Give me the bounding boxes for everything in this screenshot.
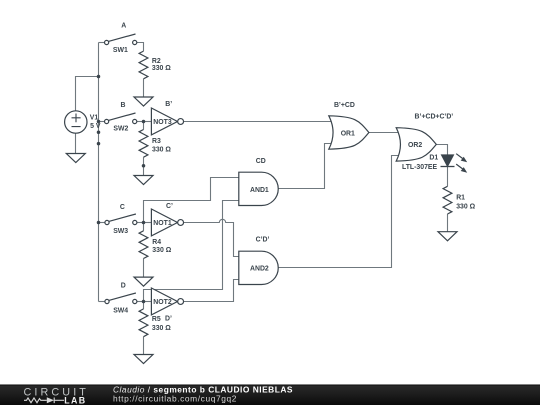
svg-text:D1: D1: [429, 155, 438, 162]
wire C'D' AND2 output to OR2 bottom input: [278, 156, 401, 268]
svg-text:NOT1: NOT1: [153, 220, 172, 227]
inverter NOT2: [151, 288, 183, 315]
node junction rail/SW3: [97, 221, 101, 225]
node dot R3 bottom: [142, 164, 146, 168]
svg-text:R5: R5: [152, 316, 161, 323]
wire node B' NOT3 output to OR1: [184, 121, 334, 123]
svg-text:330 Ω: 330 Ω: [152, 65, 171, 72]
svg-text:SW2: SW2: [113, 126, 128, 133]
wire node B to R3: [143, 122, 145, 130]
wire OR2 output to LED D1: [436, 145, 447, 156]
wire R5 to ground: [143, 337, 145, 355]
or-gate OR2: [396, 128, 436, 161]
wire left rail: [98, 43, 100, 302]
svg-text:R2: R2: [152, 58, 161, 65]
wire node D' NOT2 output to AND2 bottom input: [184, 280, 239, 302]
wire V1 minus to ground: [75, 133, 77, 153]
svg-text:SW4: SW4: [113, 308, 128, 315]
wire rail to SW1: [99, 42, 105, 44]
wire V1 plus to rail: [76, 77, 99, 111]
ground (R3): [134, 176, 153, 185]
wire R4 to ground: [143, 259, 145, 278]
svg-text:http://circuitlab.com/cuq7gq2: http://circuitlab.com/cuq7gq2: [113, 394, 237, 404]
wire node C' NOT1 output to AND2 top input (with hop): [184, 219, 239, 256]
svg-text:C’D’: C’D’: [256, 236, 270, 243]
wire R1 to ground: [447, 214, 449, 232]
svg-text:R4: R4: [152, 239, 161, 246]
svg-text:LAB: LAB: [64, 395, 86, 405]
svg-text:OR2: OR2: [408, 142, 422, 149]
svg-text:B’+CD+C’D’: B’+CD+C’D’: [415, 114, 454, 121]
wire node C to R4: [143, 223, 145, 231]
svg-text:OR1: OR1: [341, 131, 355, 138]
resistor R5: [139, 309, 148, 337]
wire R3 to ground: [143, 157, 145, 175]
wire SW4 to NOT2 input: [137, 301, 152, 303]
svg-text:A: A: [121, 22, 126, 29]
svg-text:D: D: [121, 282, 126, 289]
svg-text:D’: D’: [165, 316, 172, 323]
wire CD AND1 output to OR1 bottom input: [278, 144, 333, 189]
svg-text:R3: R3: [152, 138, 161, 145]
wire rail to SW2: [99, 121, 105, 123]
resistor R3: [139, 130, 148, 158]
svg-text:B’+CD: B’+CD: [334, 102, 355, 109]
svg-text:CD: CD: [256, 158, 266, 165]
svg-text:330 Ω: 330 Ω: [152, 325, 171, 332]
switch SW2: [105, 113, 137, 124]
svg-text:SW3: SW3: [113, 228, 128, 235]
node B junction: [142, 120, 146, 124]
svg-text:AND1: AND1: [250, 187, 269, 194]
inverter NOT3: [151, 108, 183, 135]
wire rail to SW4: [99, 301, 105, 303]
svg-text:AND2: AND2: [250, 266, 269, 273]
wire SW3 to NOT1 input: [137, 222, 152, 224]
svg-text:NOT2: NOT2: [153, 299, 172, 306]
svg-text:B’: B’: [165, 101, 172, 108]
and-gate AND1: [239, 172, 278, 205]
node junction rail/SW2: [97, 120, 101, 124]
ground (R1): [438, 232, 457, 241]
or-gate OR1: [329, 116, 369, 149]
wire R2 to ground: [143, 79, 145, 97]
node dot rail 2: [97, 142, 101, 146]
svg-text:B: B: [121, 102, 126, 109]
logo squiggle resistor+diode: [24, 398, 64, 404]
switch SW1: [105, 34, 137, 45]
wire rail to SW3: [99, 222, 105, 224]
inverter NOT1: [151, 209, 183, 236]
LED D1: [441, 154, 468, 173]
wire LED D1 to R1: [447, 167, 449, 187]
switch SW4: [105, 293, 137, 304]
wire node C to AND1 top input: [144, 178, 239, 223]
svg-text:R1: R1: [456, 194, 465, 201]
resistor R1: [443, 186, 452, 214]
svg-text:SW1: SW1: [113, 47, 128, 54]
svg-text:330 Ω: 330 Ω: [152, 247, 171, 254]
node junction V1/rail: [97, 75, 101, 79]
resistor R2: [139, 51, 148, 79]
node C junction: [142, 221, 146, 225]
wire SW1 to R2: [137, 43, 144, 52]
svg-text:5 V: 5 V: [90, 123, 101, 130]
svg-text:V1: V1: [90, 115, 99, 122]
resistor R4: [139, 231, 148, 259]
switch SW3: [105, 214, 137, 225]
ground (R2): [134, 97, 153, 106]
svg-text:330 Ω: 330 Ω: [456, 203, 475, 210]
wire node D to AND1 bottom input: [144, 201, 239, 302]
node D junction: [142, 300, 146, 304]
voltage source V1: [65, 111, 87, 133]
and-gate AND2: [239, 251, 278, 284]
footer bar: [0, 384, 540, 405]
svg-text:C: C: [120, 204, 125, 211]
wire SW2 to NOT3 input: [137, 121, 152, 123]
wire B'+CD OR1 output to OR2 top input: [369, 132, 401, 134]
svg-text:LTL-307EE: LTL-307EE: [402, 164, 438, 171]
svg-text:NOT3: NOT3: [153, 119, 172, 126]
ground (R5): [134, 355, 153, 364]
svg-text:330 Ω: 330 Ω: [152, 147, 171, 154]
ground (V1): [66, 154, 85, 163]
wire node D to R5: [143, 302, 145, 309]
svg-text:C’: C’: [166, 203, 173, 210]
ground (R4): [134, 277, 153, 286]
node dot rail 1: [97, 131, 101, 135]
